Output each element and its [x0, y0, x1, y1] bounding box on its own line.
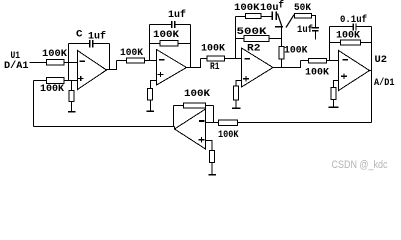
op-amp U1A (first integrator)	[78, 51, 107, 90]
svg-text:100K: 100K	[336, 31, 360, 42]
resistor (U2B non-inverting to ground)	[331, 88, 336, 100]
svg-text:100K: 100K	[284, 46, 308, 57]
svg-text:100K: 100K	[42, 49, 67, 60]
wire: U2B feedback left rail to inverting node	[329, 27, 331, 61]
switch SW1 blade from 10uf branch to pole	[278, 14, 282, 27]
wire: U2B feedback 0.1uf capacitor row	[330, 26, 372, 28]
svg-text:D/A1: D/A1	[4, 60, 29, 72]
pin label: U2A inverting input (-)	[244, 58, 250, 60]
wire: U2A output through 100K to U2B inverting input	[301, 60, 339, 62]
resistor 100K (U2B feedback)	[341, 40, 361, 45]
wire: U1A output to step	[107, 61, 117, 70]
wire: U1A output through 100K to U1B inverting input	[117, 60, 157, 62]
resistor 50K (U2A feedback switched branch)	[295, 14, 312, 19]
svg-text:100K: 100K	[305, 68, 329, 79]
wire: feedback branch row with 500K (R2)	[236, 38, 282, 40]
svg-text:C: C	[76, 30, 83, 41]
resistor (U2A non-inverting to ground)	[234, 86, 239, 100]
svg-text:10u: 10u	[260, 3, 279, 14]
resistor R1 100K (U1B output to U2A)	[207, 56, 225, 61]
wire: U2B output rail down to bottom loop (A/D1 node)	[371, 27, 373, 123]
switch SW1 pole bar	[275, 26, 283, 28]
ground (U1A non-inverting resistor)	[68, 111, 76, 113]
svg-text:100K: 100K	[218, 130, 239, 141]
resistor 100K (U3 feedback)	[184, 103, 206, 108]
wire: bottom loop from A/D1 node through 100K into U3 inverting input	[206, 122, 372, 124]
svg-text:1uf: 1uf	[88, 31, 106, 43]
pin label: U2B non-inverting input (+)	[341, 76, 347, 77]
resistor 100K (U2A feedback top branch)	[246, 14, 262, 19]
svg-text:CSDN @_kdc: CSDN @_kdc	[332, 159, 388, 171]
capacitor 1uf plates (U1B feedback)	[172, 21, 174, 28]
resistor 100K (U1B feedback)	[160, 41, 178, 47]
svg-text:1uf: 1uf	[297, 24, 313, 36]
op-amp U2A (third stage with switched feedback)	[242, 48, 274, 87]
wire: U2B output stub	[370, 70, 372, 72]
svg-text:A/D1: A/D1	[374, 77, 395, 89]
capacitor C 1uf plates (U1A feedback)	[90, 40, 92, 48]
wire: U2B feedback 100K resistor row	[330, 42, 372, 44]
pin label: U3 non-inverting input (+)	[199, 139, 205, 140]
wire: U1B feedback right rail to output node	[190, 25, 192, 68]
wire: capacitor C feedback top run	[69, 43, 110, 45]
svg-text:100K: 100K	[40, 84, 64, 95]
svg-text:100K: 100K	[184, 89, 210, 100]
resistor (U1A non-inverting to ground)	[69, 91, 74, 102]
svg-text:0.1uf: 0.1uf	[340, 14, 367, 26]
wire: U1B feedback 100K resistor run	[150, 43, 191, 45]
wire: U2A non-inverting input stub and ground resistor drop	[236, 81, 242, 108]
svg-text:R1: R1	[210, 62, 220, 73]
svg-text:f: f	[279, 0, 285, 12]
pin label: U3 inverting input (-)	[199, 120, 205, 122]
wire: lower 100K resistor row into op-amp U1A non-inverting side	[34, 80, 78, 82]
ground (U2A non-inverting resistor)	[232, 107, 241, 109]
ground (U3 non-inverting resistor)	[209, 174, 217, 176]
resistor 100K (between U1A and U1B)	[127, 58, 145, 63]
wire: U2A output to step up	[273, 61, 301, 68]
resistor 500K R2 (U2A feedback middle branch)	[244, 36, 269, 42]
resistor 100K (vertical, switch pole to U2A output)	[279, 47, 284, 60]
pin label: U1A non-inverting input (+)	[78, 78, 84, 79]
svg-text:500K: 500K	[237, 27, 267, 38]
svg-text:U2: U2	[375, 55, 388, 66]
resistor 100K (bottom loop into U3)	[219, 120, 238, 126]
wire: 1uf cap bottom lead (open end)	[314, 32, 316, 40]
wire: U3 feedback right rail to inverting node	[213, 106, 215, 123]
resistor 100K (between U2A and U2B)	[309, 59, 327, 64]
wire: U1B output to step up	[187, 59, 201, 68]
pin label: U1B inverting input (-)	[159, 59, 165, 61]
svg-text:R2: R2	[247, 44, 261, 55]
wire: inverting rail of U2A up to feedback network	[235, 17, 237, 59]
svg-text:1uf: 1uf	[168, 9, 186, 21]
svg-text:100K: 100K	[201, 44, 225, 55]
wire: U3 non-inverting ground resistor bottom lead	[211, 163, 213, 175]
resistor (U3 non-inverting to ground)	[210, 151, 215, 163]
pin label: U2B inverting input (-)	[342, 59, 348, 61]
wire: U3 feedback left rail to output	[173, 106, 175, 127]
wire: U2B non-inverting input stub and ground resistor drop	[334, 81, 339, 107]
op-amp U1B (second integrator)	[157, 50, 187, 86]
wire: U1A non-inverting ground resistor drop	[71, 81, 73, 112]
wire: U3 non-inverting input stub and ground resistor drop	[206, 141, 213, 151]
svg-text:100K: 100K	[120, 48, 143, 59]
wire: node A vertical tying C feedback, inverting node of U1A	[68, 44, 70, 81]
capacitor 10uf plates (U2A feedback top branch)	[272, 12, 274, 21]
svg-text:100K: 100K	[234, 3, 260, 14]
resistor 100K (U1A upper input)	[47, 60, 65, 66]
resistor (U1B non-inverting to ground)	[148, 89, 153, 101]
wire: long bottom loop return to U1A input stage	[34, 126, 175, 128]
wire: feedback drop from C to U1A output	[109, 44, 111, 70]
wire: U1B non-inverting input stub and ground resistor drop	[151, 81, 157, 111]
svg-text:100K: 100K	[153, 30, 179, 41]
wire: feedback branch row with 100K and 10uf	[236, 16, 272, 18]
wire: U3 feedback 100K row	[174, 105, 214, 107]
ground (U2B non-inverting resistor)	[329, 106, 339, 108]
wire: joint at U3 output apex	[174, 127, 176, 130]
op-amp U2B (output stage A/D1)	[339, 51, 370, 91]
wire: D/A1 input to first 100K resistor (op-amp U1A inverting input)	[30, 62, 78, 64]
capacitor 1uf plates (vertical, after 50K)	[312, 27, 319, 29]
pin label: U2A non-inverting input (+)	[243, 78, 249, 79]
pin label: U1A inverting input (-)	[80, 60, 86, 62]
op-amp U3 (inverter in feedback loop, points left)	[175, 109, 206, 149]
resistor 100K (U1A lower input from loop)	[47, 78, 65, 84]
ground (U1B non-inverting resistor)	[147, 110, 155, 112]
wire: U1B feedback capacitor 1uf top run	[150, 24, 191, 26]
wire: switch pole vertical through 100K down to U2A output	[281, 28, 283, 68]
wire: left feedback rail down from lower 100K to bottom loop wire	[33, 81, 35, 127]
wire: 50K branch to 1uf cap lead	[312, 16, 316, 28]
wire: U1B output through R1 to U2A inverting input	[201, 58, 242, 60]
switch SW1 blade from pole bar to 50K branch	[286, 15, 294, 28]
pin label: U1B non-inverting input (+)	[158, 74, 164, 75]
svg-text:50K: 50K	[294, 3, 311, 14]
capacitor 0.1uf plates (U2B feedback)	[354, 24, 355, 31]
wire: U1B feedback left rail to inverting node	[149, 25, 151, 61]
